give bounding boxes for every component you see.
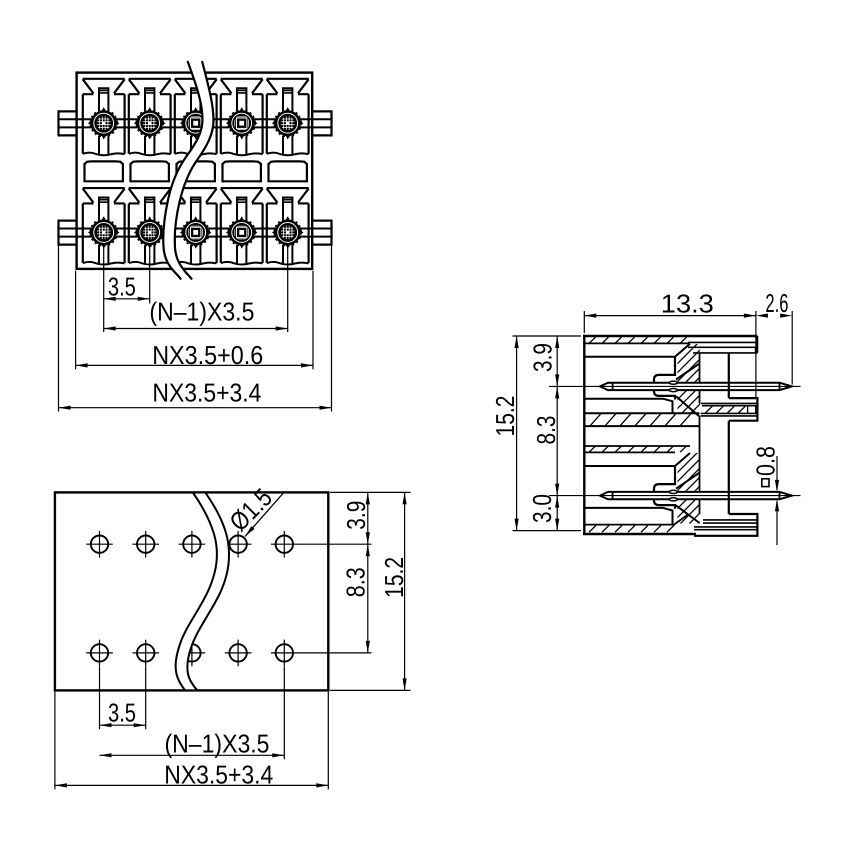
upper pin centre line: [549, 385, 801, 387]
extension line pcb bottom edge right: [330, 689, 411, 691]
svg-text:3.9: 3.9: [528, 343, 558, 372]
hole B5: [271, 640, 298, 667]
pole 4 chamber row 1: [221, 79, 263, 156]
bottom wall inner line: [586, 515, 689, 525]
dimension 3.9 (side): [528, 336, 560, 531]
screw terminal A1: [88, 107, 120, 139]
pole 2 chamber row 1: [129, 79, 171, 156]
pole 2 chamber row 2: [129, 188, 171, 265]
svg-text:(N–1)X3.5: (N–1)X3.5: [165, 729, 270, 759]
hole A5: [271, 531, 298, 558]
partition pocket 2: [131, 161, 169, 181]
lower cavity floor: [586, 508, 673, 525]
lower pin: [600, 492, 792, 499]
right mounting tab row 1: [312, 111, 331, 135]
extension line 13.3 left: [583, 311, 585, 333]
extension line board left down: [54, 692, 56, 790]
break band (front view): [163, 61, 213, 280]
lower cavity top wall hatch: [589, 446, 687, 452]
dimension NX3.5+3.4 (pcb): [55, 760, 328, 790]
dimension 8.3 (side): [531, 386, 561, 495]
partition pocket 3: [177, 161, 215, 181]
pole 3 chamber row 1: [175, 79, 217, 156]
housing outline: [77, 73, 313, 269]
svg-text:0.8: 0.8: [751, 446, 781, 476]
dimension (N-1)X3.5 (pcb): [100, 729, 285, 759]
back face lower: [699, 416, 701, 514]
hole A2: [132, 531, 159, 558]
extension line housing right: [312, 271, 314, 370]
extension line body bottom left: [513, 530, 582, 532]
middle flange: [729, 398, 758, 421]
svg-text:(N–1)X3.5: (N–1)X3.5: [149, 297, 254, 327]
wire clamp rail lines row 2: [57, 228, 332, 236]
PCB board outline: [55, 492, 328, 690]
pole 1 chamber row 2: [83, 188, 125, 265]
extension line hole B5 down: [283, 667, 285, 760]
hole diameter leader line: [245, 492, 285, 537]
front face: [583, 335, 585, 535]
dimension 0.8 square pin (side): [751, 446, 781, 545]
extension line hole row A right: [298, 543, 372, 545]
hole B4: [225, 640, 252, 667]
back face upper: [699, 353, 701, 403]
svg-text:3.9: 3.9: [341, 501, 371, 530]
dimension 2.6 (side): [756, 288, 792, 318]
screw terminal B3: [180, 217, 212, 249]
dimension NX3.5+3.4 (front): [59, 378, 332, 410]
svg-text:15.2: 15.2: [490, 396, 520, 437]
dimension 15.2 (side): [490, 336, 520, 531]
screw terminal B5: [272, 217, 304, 249]
extension line pcb top edge right: [330, 491, 411, 493]
upper cavity floor: [586, 399, 673, 414]
top wall hatch: [589, 337, 687, 343]
extension line board right down: [327, 692, 329, 790]
extension line tab left: [58, 246, 60, 412]
partition pocket 4: [223, 161, 261, 181]
bottom wall hatch: [589, 525, 674, 532]
svg-text:3.5: 3.5: [108, 271, 136, 301]
right wall lower: [728, 421, 730, 514]
dimension 3.5 (front): [104, 271, 150, 301]
svg-text:3.0: 3.0: [527, 494, 557, 523]
leader arrowhead: [243, 526, 254, 538]
screw terminal A4: [226, 107, 258, 139]
extension line tab right: [331, 246, 333, 412]
screw terminal A3: [180, 107, 212, 139]
svg-text:8.3: 8.3: [341, 567, 371, 597]
upper pin: [600, 383, 792, 390]
dimension 3.5 (pcb): [100, 697, 146, 727]
middle wall outline: [586, 413, 700, 426]
pole 4 chamber row 2: [221, 188, 263, 265]
svg-text:NX3.5+0.6: NX3.5+0.6: [152, 340, 263, 370]
extension line terminal 2 centre: [149, 246, 151, 304]
screw terminal B4: [226, 217, 258, 249]
hole A1: [86, 531, 113, 558]
lower back block hatch: [665, 450, 700, 566]
lower wedge outline: [676, 473, 700, 523]
partition pocket 5: [269, 161, 307, 181]
middle flange lines: [701, 403, 758, 416]
lower collar dimples: [669, 490, 677, 493]
svg-text:NX3.5+3.4: NX3.5+3.4: [152, 378, 261, 408]
dimension 3.0 (side): [527, 494, 559, 531]
screw terminal B1: [88, 217, 120, 249]
upper back block hatch: [665, 341, 700, 457]
screw terminal A5: [272, 107, 304, 139]
extension line body top left: [513, 335, 582, 337]
pole 5 chamber row 1: [267, 79, 309, 156]
right mounting tab row 2: [312, 221, 331, 245]
extension line hole row B right: [298, 652, 372, 654]
lower pin centre line: [549, 495, 801, 497]
bottom flange lines: [694, 520, 757, 530]
lower cavity ceiling: [586, 453, 691, 466]
svg-text:NX3.5+3.4: NX3.5+3.4: [164, 760, 273, 790]
pole 5 chamber row 2: [267, 188, 309, 265]
extension line 13.3 right: [755, 311, 757, 397]
left mounting tab row 2: [59, 221, 77, 245]
dimension 15.2 (pcb): [379, 492, 409, 690]
hole A3: [179, 531, 206, 558]
dimension 13.3 (side): [584, 289, 756, 319]
right wall upper: [728, 353, 730, 398]
top flange right closure: [756, 336, 758, 353]
top edge: [583, 335, 757, 337]
svg-text:15.2: 15.2: [379, 557, 409, 598]
pole 1 chamber row 1: [83, 79, 125, 156]
svg-text:13.3: 13.3: [661, 289, 714, 319]
upper pin ticks: [613, 383, 780, 390]
extension line terminal 5 centre: [287, 246, 289, 332]
extension line hole B2 down: [145, 667, 147, 730]
bottom flange step: [694, 514, 757, 536]
hole B3: [179, 640, 206, 667]
hole B1: [86, 640, 113, 667]
lower pin ticks: [613, 492, 780, 499]
hole B2: [132, 640, 159, 667]
wire clamp rail lines row 1: [57, 119, 332, 127]
extension line terminal 1 centre: [103, 246, 105, 332]
hole A4: [225, 531, 252, 558]
pole 3 chamber row 2: [175, 188, 217, 265]
upper cavity ceiling: [586, 344, 691, 357]
partition pocket 1: [85, 161, 123, 181]
break band (pcb view): [176, 492, 229, 691]
lower pin collar: [654, 467, 675, 509]
extension line 2.6 right: [791, 311, 793, 385]
svg-text:8.3: 8.3: [531, 416, 561, 445]
top flange lines: [688, 342, 757, 353]
top wall inner line: [586, 342, 691, 344]
lower cavity top wall outline: [586, 446, 691, 452]
dimension (N-1)X3.5 (front): [104, 297, 288, 331]
screw terminal A2: [134, 107, 166, 139]
screw terminal B2: [134, 217, 166, 249]
left mounting tab row 1: [59, 111, 77, 135]
middle wall hatch: [590, 414, 691, 426]
upper pin collar: [654, 358, 675, 400]
extension line hole B1 down: [99, 667, 101, 730]
svg-text:3.5: 3.5: [108, 697, 136, 727]
middle flange hatch: [705, 406, 756, 414]
upper collar dimples: [669, 381, 677, 384]
svg-text:2.6: 2.6: [765, 288, 788, 318]
bottom edge: [583, 533, 696, 535]
dimension NX3.5+0.6 (front): [76, 340, 313, 370]
dimension 8.3 (pcb): [341, 544, 371, 653]
upper wedge outline: [676, 364, 700, 417]
extension line housing left: [75, 271, 77, 370]
dimension 3.9 (pcb): [341, 492, 371, 544]
